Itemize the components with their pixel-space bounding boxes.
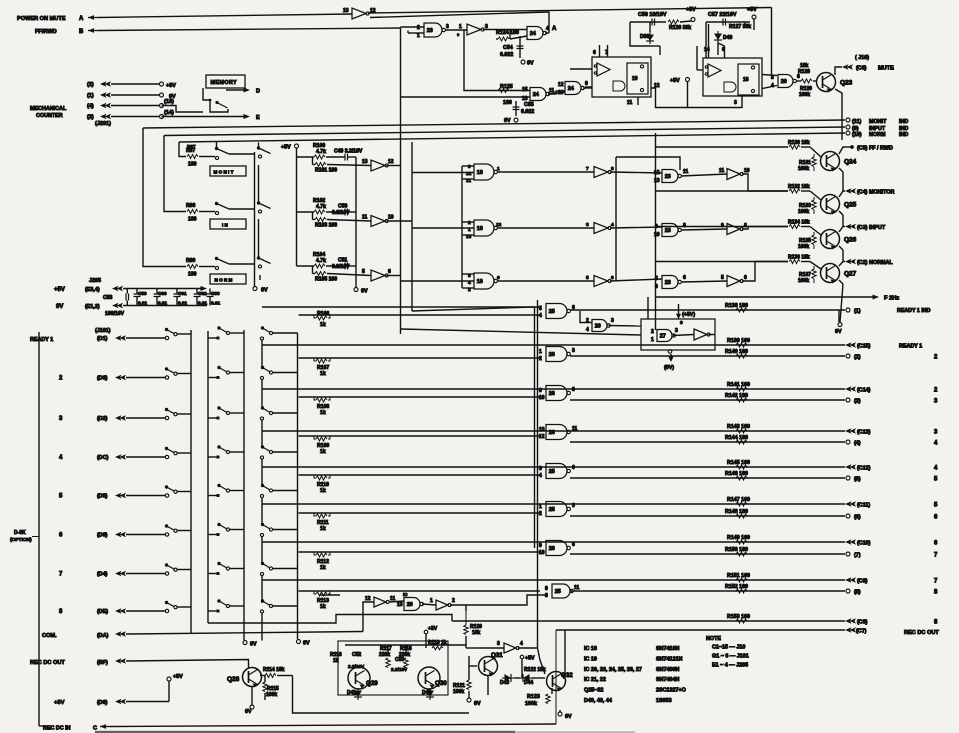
svg-text:READY 1: READY 1 [899,344,922,350]
svg-text:8: 8 [611,166,614,172]
svg-text:C57 22/10V: C57 22/10V [708,12,737,18]
svg-text:1S953: 1S953 [656,698,672,704]
svg-text:7: 7 [934,579,938,585]
svg-text:6: 6 [683,275,686,281]
svg-text:R126 33k: R126 33k [669,25,691,31]
svg-text:18k: 18k [800,63,809,69]
svg-text:(C9): (C9) [857,579,868,585]
svg-text:2.2/16V: 2.2/16V [391,667,408,672]
svg-text:1k: 1k [320,526,326,532]
svg-text:11: 11 [719,168,725,174]
svg-text:6: 6 [572,465,575,471]
svg-text:I N: I N [222,223,229,228]
svg-text:0.01: 0.01 [158,301,168,306]
svg-text:1: 1 [430,598,433,604]
svg-text:10: 10 [539,395,545,401]
svg-text:3: 3 [586,222,589,228]
svg-text:+5V: +5V [281,145,291,151]
svg-text:R153 100: R153 100 [727,614,750,620]
svg-text:0V: 0V [361,289,368,295]
svg-text:11: 11 [627,100,633,106]
svg-text:(E3,4): (E3,4) [85,287,100,293]
svg-text:18: 18 [477,279,483,285]
svg-text:F 2Hz: F 2Hz [884,296,899,302]
svg-text:12: 12 [496,222,502,228]
svg-text:COUNTER: COUNTER [36,113,63,119]
svg-text:C54: C54 [503,45,513,51]
svg-text:3: 3 [497,641,500,647]
svg-text:R149 100: R149 100 [727,535,750,541]
svg-text:C56 10/10V: C56 10/10V [638,12,667,18]
svg-text:D-8K: D-8K [14,530,26,536]
svg-text:(C3) INPUT: (C3) INPUT [857,225,886,231]
svg-text:C1~15 — J10: C1~15 — J10 [712,645,745,651]
svg-text:3: 3 [734,100,737,106]
svg-text:0: 0 [457,32,460,37]
svg-text:R140 180: R140 180 [725,349,748,355]
svg-text:3: 3 [934,430,938,436]
svg-text:COM.: COM. [42,633,57,639]
svg-text:C52: C52 [352,652,361,658]
svg-text:+5V: +5V [173,674,183,680]
svg-text:+5V: +5V [525,656,535,662]
svg-text:1k: 1k [320,565,326,571]
svg-text:18: 18 [477,226,483,232]
svg-text:18: 18 [743,77,749,83]
svg-text:100k: 100k [525,701,537,707]
svg-text:Q25: Q25 [844,202,857,209]
svg-text:180: 180 [188,217,197,223]
svg-text:R150 180: R150 180 [725,547,748,553]
svg-text:10: 10 [388,215,394,221]
svg-text:D40, 43, 44: D40, 43, 44 [584,698,612,704]
svg-text:(C6): (C6) [856,66,867,72]
svg-text:180: 180 [188,272,197,278]
svg-text:(11): (11) [852,119,861,125]
svg-text:1: 1 [651,337,654,343]
svg-text:(0V): (0V) [664,365,674,371]
svg-text:(10): (10) [852,132,862,138]
svg-text:(6): (6) [854,515,861,521]
svg-text:R139 100: R139 100 [727,338,750,344]
svg-text:2: 2 [452,598,455,604]
svg-text:(D2): (D2) [97,416,108,422]
svg-text:+5V: +5V [747,7,757,13]
svg-text:R152 180: R152 180 [725,584,748,590]
svg-text:R99: R99 [186,258,196,264]
svg-text:180: 180 [188,162,197,168]
svg-text:NORM: NORM [869,132,886,138]
svg-text:2SC1327+O: 2SC1327+O [656,688,686,694]
svg-text:R147 100: R147 100 [727,497,750,503]
svg-text:27: 27 [660,334,666,340]
svg-text:24: 24 [530,31,536,37]
svg-text:(C11): (C11) [857,503,870,509]
svg-text:1k: 1k [320,371,326,377]
svg-text:SN7410N: SN7410N [656,646,679,652]
svg-text:20: 20 [781,79,787,85]
svg-text:(8): (8) [854,590,861,596]
svg-text:+5V: +5V [670,78,680,84]
svg-text:6: 6 [59,533,63,539]
svg-text:R122 18k: R122 18k [524,667,546,673]
svg-text:REC DC IN: REC DC IN [43,726,71,732]
svg-text:Q25~32: Q25~32 [584,688,603,694]
svg-text:(1): (1) [87,93,94,99]
svg-text:8: 8 [572,387,575,393]
svg-text:C58: C58 [103,295,113,301]
svg-text:2: 2 [539,356,542,362]
svg-text:C55: C55 [524,102,534,108]
svg-text:3: 3 [611,318,614,324]
svg-text:MECHANICAL: MECHANICAL [30,106,67,112]
svg-text:1k: 1k [320,488,326,494]
svg-text:13: 13 [362,159,368,165]
svg-text:4.7k: 4.7k [316,258,326,264]
svg-text:6: 6 [744,275,747,281]
svg-text:10: 10 [539,550,545,556]
svg-text:4: 4 [539,473,542,479]
svg-text:Q26: Q26 [844,237,857,244]
svg-text:(DA): (DA) [97,633,109,639]
svg-text:6: 6 [934,515,938,521]
svg-text:23: 23 [665,228,671,234]
svg-text:0V: 0V [261,288,268,294]
svg-text:1k: 1k [333,658,339,664]
svg-text:7: 7 [59,572,63,578]
svg-text:R106: R106 [317,311,329,317]
svg-text:4: 4 [586,327,589,333]
svg-text:0.01: 0.01 [211,301,221,306]
svg-text:(+5V): (+5V) [682,312,695,318]
svg-text:C60: C60 [158,291,167,296]
svg-text:0V: 0V [504,118,511,124]
svg-text:7: 7 [934,553,938,559]
svg-text:R141 100: R141 100 [727,382,750,388]
svg-text:2: 2 [59,376,63,382]
svg-text:READY 1: READY 1 [30,337,53,343]
svg-text:R132 18k: R132 18k [788,184,810,190]
svg-text:26: 26 [549,546,555,552]
svg-text:R128: R128 [798,69,810,75]
svg-text:1: 1 [539,349,542,355]
svg-text:8: 8 [934,590,938,596]
svg-text:(C7): (C7) [856,629,867,635]
svg-text:A: A [552,26,557,32]
svg-text:R125: R125 [500,84,513,90]
svg-text:4.7k: 4.7k [316,204,326,210]
svg-text:100/16V: 100/16V [105,311,125,317]
svg-text:0V: 0V [56,304,63,310]
svg-text:100k: 100k [266,692,277,698]
svg-text:Q24: Q24 [844,159,857,166]
svg-text:25: 25 [555,589,561,595]
svg-text:R142 180: R142 180 [725,393,748,399]
svg-text:IC 18: IC 18 [584,646,597,652]
svg-text:(C15): (C15) [857,344,871,350]
svg-text:2: 2 [468,220,471,226]
svg-text:+5V: +5V [428,626,438,632]
svg-text:6: 6 [611,275,614,281]
svg-text:(C13): (C13) [857,430,871,436]
svg-text:MUTE: MUTE [878,66,894,72]
svg-text:7: 7 [586,166,589,172]
svg-text:(C5) FF / RWD: (C5) FF / RWD [857,146,893,152]
svg-text:11: 11 [362,215,368,221]
svg-text:3: 3 [446,24,449,30]
svg-text:1: 1 [459,24,462,30]
svg-text:13: 13 [343,8,349,14]
svg-text:Q32: Q32 [561,672,573,679]
svg-text:(J201): (J201) [95,121,111,127]
svg-text:8: 8 [545,593,548,599]
svg-text:100k: 100k [798,209,809,215]
svg-text:R130 18k: R130 18k [788,140,810,146]
svg-text:5: 5 [362,269,365,275]
svg-text:13: 13 [654,178,660,184]
svg-text:4: 4 [934,441,938,447]
svg-text:11: 11 [574,585,580,591]
svg-text:(C8): (C8) [857,620,868,626]
svg-text:25: 25 [549,507,555,513]
svg-text:(7): (7) [854,553,861,559]
svg-text:R127 33k: R127 33k [729,24,751,30]
svg-text:R124 180: R124 180 [496,30,519,36]
svg-text:13: 13 [397,602,403,608]
svg-text:6: 6 [934,541,938,547]
svg-text:100k: 100k [798,278,809,284]
svg-text:IC 20, 23, 24, 25, 26, 27: IC 20, 23, 24, 25, 26, 27 [584,667,642,673]
svg-text:R103 100: R103 100 [315,223,337,229]
svg-text:C62: C62 [198,291,207,296]
svg-text:1: 1 [539,504,542,510]
svg-text:R123: R123 [527,694,540,700]
svg-text:6: 6 [593,50,596,56]
svg-text:(DE): (DE) [97,609,108,615]
svg-text:(C12): (C12) [857,466,871,472]
svg-text:0.022: 0.022 [500,52,513,58]
svg-text:(D6): (D6) [97,700,108,706]
svg-text:23: 23 [665,174,671,180]
svg-text:12: 12 [654,83,660,89]
svg-text:(DC): (DC) [97,455,109,461]
svg-text:E: E [256,115,260,121]
svg-text:4: 4 [59,455,63,461]
svg-text:8: 8 [59,609,63,615]
svg-text:(E1,2): (E1,2) [85,304,100,310]
svg-text:Q31: Q31 [491,652,503,659]
svg-text:9: 9 [539,543,542,549]
svg-text:9: 9 [680,320,683,326]
svg-text:24: 24 [568,86,574,92]
svg-text:J205: J205 [89,278,101,284]
svg-text:6: 6 [572,542,575,548]
svg-text:C: C [93,726,97,732]
svg-text:(C2) NORMAL: (C2) NORMAL [857,260,893,266]
svg-text:24: 24 [533,92,539,98]
svg-text:100k: 100k [798,166,809,172]
svg-text:20: 20 [407,602,413,608]
svg-text:IC 21, 22: IC 21, 22 [584,677,606,683]
svg-text:C50: C50 [338,204,348,210]
svg-text:3: 3 [655,284,658,290]
svg-text:(14): (14) [164,110,174,116]
svg-text:12: 12 [365,596,371,602]
svg-text:100k: 100k [453,689,464,695]
svg-text:+5V: +5V [166,83,176,89]
svg-text:(BF): (BF) [97,660,108,666]
svg-text:8: 8 [744,223,747,229]
svg-text:A: A [79,16,84,22]
svg-text:4: 4 [611,222,614,228]
svg-text:9: 9 [545,586,548,592]
svg-text:4: 4 [539,313,542,319]
svg-text:13: 13 [539,427,545,433]
svg-text:(OPTION): (OPTION) [10,537,32,543]
svg-text:1: 1 [497,166,500,172]
svg-text:R144 180: R144 180 [725,435,748,441]
svg-text:C63: C63 [211,291,220,296]
svg-text:2: 2 [539,511,542,517]
svg-text:18: 18 [477,170,483,176]
svg-text:0V: 0V [250,642,257,648]
svg-text:Q23: Q23 [840,80,853,87]
svg-text:1k: 1k [320,449,326,455]
svg-text:REC DC OUT: REC DC OUT [30,660,65,666]
svg-text:19: 19 [632,76,638,82]
svg-text:(3): (3) [854,399,861,405]
svg-text:0V: 0V [245,709,252,715]
svg-text:R145 100: R145 100 [727,460,750,466]
svg-text:1: 1 [417,33,420,39]
svg-text:20: 20 [595,324,601,330]
svg-text:6: 6 [497,275,500,281]
svg-text:100k: 100k [798,244,809,250]
svg-text:R136 18k: R136 18k [788,255,810,261]
svg-text:3: 3 [675,328,678,334]
svg-text:0.01: 0.01 [198,301,208,306]
svg-text:C53: C53 [395,657,404,663]
svg-text:SN7404N: SN7404N [656,677,679,683]
svg-text:MONIT: MONIT [869,119,887,125]
svg-text:100k: 100k [799,92,810,98]
svg-text:B: B [79,29,84,35]
svg-text:23: 23 [427,28,433,34]
svg-text:G1 ~ 6 — J101: G1 ~ 6 — J101 [712,654,749,660]
svg-text:26: 26 [549,352,555,358]
svg-text:5: 5 [59,494,63,500]
svg-text:(2): (2) [854,355,861,361]
svg-text:R151 100: R151 100 [727,573,750,579]
svg-text:5: 5 [586,275,589,281]
svg-text:+5V: +5V [54,287,65,293]
svg-text:0.022: 0.022 [521,109,534,115]
svg-text:4.7k: 4.7k [316,149,326,155]
svg-text:3: 3 [572,348,575,354]
svg-text:6: 6 [388,269,391,275]
svg-text:(2): (2) [87,82,94,88]
svg-text:9: 9 [468,164,471,170]
svg-text:9: 9 [721,223,724,229]
svg-text:1k: 1k [320,322,326,328]
svg-text:0V: 0V [835,329,842,335]
svg-text:Q29: Q29 [366,680,378,687]
svg-text:5: 5 [934,503,938,509]
svg-text:R146 180: R146 180 [725,471,748,477]
svg-text:3: 3 [934,399,938,405]
svg-text:5: 5 [934,477,938,483]
svg-text:NOTE: NOTE [706,636,721,642]
svg-text:READY 1 IND: READY 1 IND [897,308,931,314]
svg-text:2: 2 [417,25,420,31]
svg-text:5: 5 [721,275,724,281]
svg-text:2: 2 [651,329,654,335]
svg-text:(D5): (D5) [97,494,108,500]
svg-text:(5): (5) [854,477,861,483]
svg-text:IND: IND [899,119,908,125]
svg-text:0V: 0V [474,701,481,707]
svg-text:(J101): (J101) [95,328,111,334]
svg-text:12: 12 [539,434,545,440]
svg-text:25: 25 [549,309,555,315]
svg-text:180: 180 [503,100,512,106]
svg-text:REC DC OUT: REC DC OUT [904,630,939,636]
svg-text:(D1): (D1) [97,336,108,342]
svg-text:(D4): (D4) [97,572,108,578]
svg-text:23: 23 [665,280,671,286]
svg-text:(C10): (C10) [857,541,871,547]
svg-text:(4): (4) [87,104,94,110]
svg-text:N O R M: N O R M [215,278,233,283]
svg-text:E1 ~ 4 — J205: E1 ~ 4 — J205 [712,663,748,669]
svg-text:Q28: Q28 [227,676,240,683]
svg-text:1k: 1k [320,604,326,610]
svg-text:1k: 1k [320,410,326,416]
svg-text:12: 12 [558,82,564,88]
svg-text:M O N I T: M O N I T [214,170,234,175]
svg-text:(D0): (D0) [97,533,108,539]
svg-text:R148 180: R148 180 [725,509,748,515]
svg-text:(13): (13) [164,99,174,105]
svg-text:0.01: 0.01 [138,301,148,306]
svg-text:Q27: Q27 [844,271,857,278]
svg-text:(4): (4) [854,441,861,447]
svg-text:3: 3 [59,416,63,422]
svg-text:Q30: Q30 [435,680,447,687]
svg-text:R114 18k: R114 18k [263,667,285,673]
svg-text:11: 11 [683,169,689,175]
svg-text:4: 4 [934,466,938,472]
svg-text:10: 10 [744,168,750,174]
svg-text:8: 8 [683,223,686,229]
svg-text:IC 19: IC 19 [584,656,597,662]
svg-text:26: 26 [549,391,555,397]
svg-text:0.01: 0.01 [178,301,188,306]
svg-text:R98: R98 [186,203,196,209]
svg-text:(C4) MONITOR: (C4) MONITOR [857,190,894,196]
svg-text:9: 9 [585,81,588,87]
svg-text:R143 100: R143 100 [727,424,750,430]
svg-text:D: D [256,89,260,95]
svg-text:8: 8 [934,620,938,626]
svg-text:+5V: +5V [54,700,65,706]
svg-text:SN74121N: SN74121N [656,656,682,662]
svg-text:18k: 18k [472,630,481,636]
svg-text:SN7400N: SN7400N [656,667,679,673]
svg-text:R101 100: R101 100 [315,168,337,174]
svg-text:0V: 0V [565,714,572,720]
svg-text:RST: RST [187,144,196,149]
